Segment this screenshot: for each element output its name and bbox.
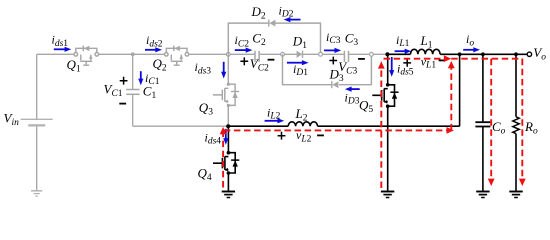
- svg-text:Q1: Q1: [67, 57, 81, 75]
- wire: top rail left segment (gray): [37, 53, 388, 55]
- current arrow i_L1 (blue): [395, 49, 412, 54]
- inductor L1: [411, 49, 441, 54]
- ground (Ro): [509, 192, 522, 198]
- node: junction rail/D2-loop right (gray ring): [319, 52, 323, 56]
- current arrow i_ds4 (blue): [223, 129, 228, 145]
- wire: input branch vertical (light gray): [36, 54, 38, 190]
- label VC1 with polarity: [120, 77, 128, 85]
- svg-text:Vo: Vo: [533, 45, 546, 63]
- svg-text:iD2: iD2: [279, 3, 294, 19]
- capacitor C3 (on rail): [344, 51, 348, 62]
- current path: red dashed down beside Co: [488, 59, 495, 186]
- svg-text:C2: C2: [252, 31, 266, 49]
- node: junction rail/D3-loop right (gray ring): [370, 52, 374, 56]
- node: junction rail/Q5 (black dot): [385, 52, 389, 56]
- current path: red dashed riser x=451 up to top red line: [448, 61, 455, 130]
- capacitor C1: [126, 54, 139, 126]
- svg-text:VC1: VC1: [104, 82, 123, 100]
- svg-text:ids5: ids5: [397, 62, 414, 78]
- svg-text:ids2: ids2: [146, 33, 163, 49]
- transistor Q5 (black, vertical): [372, 54, 398, 190]
- node Vo terminal: [527, 52, 531, 56]
- node: junction output rail / Ro (black dot): [514, 52, 518, 56]
- inductor L2: [288, 122, 317, 126]
- node: junction output rail / Co (black dot): [481, 52, 485, 56]
- transistor Q3 (gray, vertical): [213, 54, 239, 126]
- current arrow i_ds1 (blue): [54, 47, 72, 52]
- svg-text:Q3: Q3: [199, 100, 213, 118]
- diode D3 (gray, pointing left): [332, 81, 339, 88]
- node: junction C1/rail (gray dot): [131, 52, 135, 56]
- svg-text:Q5: Q5: [359, 97, 373, 115]
- node: junction output rail / L2 riser (black dot): [458, 52, 462, 56]
- capacitor Co: [475, 54, 490, 191]
- svg-text:ids3: ids3: [195, 60, 212, 76]
- wire: output rail (black): [387, 53, 527, 55]
- source Vin battery: [21, 119, 53, 125]
- current arrow i_C2 (blue): [235, 48, 253, 53]
- svg-text:L2: L2: [295, 106, 308, 124]
- ground (Q5): [381, 192, 394, 198]
- label VC2 with polarity: [240, 57, 248, 65]
- current arrow i_o (blue): [463, 47, 480, 52]
- node: junction rail/D3-loop (gray ring): [281, 52, 285, 56]
- svg-text:iL2: iL2: [267, 105, 281, 121]
- ground (input, light gray): [31, 191, 42, 196]
- node: junction lower rail (black dot): [226, 124, 230, 128]
- svg-text:D1: D1: [292, 34, 307, 52]
- current arrow i_ds5 (blue): [389, 57, 394, 77]
- node: junction rail/D2-loop/Q3 (gray ring): [226, 52, 230, 56]
- current arrow i_D3 (blue): [345, 87, 360, 92]
- ground (Co): [476, 192, 489, 198]
- current arrow i_D2 (blue): [284, 17, 301, 22]
- current path: red dashed down beside Ro: [519, 59, 526, 186]
- svg-text:iC2: iC2: [235, 33, 250, 49]
- svg-text:iD3: iD3: [345, 90, 360, 106]
- svg-text:C3: C3: [345, 31, 359, 49]
- current arrow i_D1 (blue): [287, 60, 309, 65]
- label vL2 with polarity: [278, 132, 286, 140]
- wire: lower rail gray segment (C1 bottom to node): [133, 125, 229, 127]
- current path: red dashed lower horizontal (under L2): [224, 127, 454, 134]
- current path: red dashed top horizontal (under output rail): [384, 55, 523, 62]
- current arrow i_C3 (blue): [324, 48, 341, 53]
- svg-text:Vin: Vin: [4, 111, 20, 129]
- svg-text:Q4: Q4: [198, 165, 212, 183]
- wire: lower rail black (node to L2 and L2 to output riser): [228, 54, 459, 126]
- svg-text:iC3: iC3: [326, 30, 341, 46]
- resistor Ro: [513, 54, 519, 191]
- svg-text:L1: L1: [420, 33, 433, 51]
- svg-text:Q2: Q2: [153, 56, 167, 74]
- capacitor C2 (on rail): [255, 51, 259, 62]
- diode D2 (gray, pointing left): [269, 20, 276, 27]
- current arrow i_C1 (blue): [138, 71, 143, 85]
- transistor Q4 (black, vertical): [213, 126, 239, 191]
- svg-text:io: io: [466, 32, 474, 48]
- wire: D2 upper loop (gray): [228, 23, 320, 54]
- ground (Q4): [222, 192, 235, 198]
- current path: red dashed up through Q4: [220, 127, 227, 188]
- current arrow i_ds2 (blue): [145, 47, 162, 52]
- diode D1 (gray, pointing right, on rail): [297, 51, 303, 58]
- svg-text:vL1: vL1: [421, 54, 437, 70]
- label vL1 with polarity: [403, 59, 411, 67]
- label VC3 with polarity: [329, 57, 337, 65]
- transistor Q2 (gray, horizontal on rail): [165, 46, 189, 66]
- svg-text:Co: Co: [492, 119, 506, 137]
- svg-text:iL1: iL1: [396, 33, 410, 49]
- svg-text:ids1: ids1: [52, 33, 69, 49]
- current arrow i_L2 (blue): [265, 118, 285, 123]
- current path: red dashed along Q5: [378, 61, 385, 188]
- wire: D3 lower loop (gray): [283, 54, 372, 84]
- svg-text:ids4: ids4: [205, 130, 222, 146]
- current arrow i_ds3 (blue): [221, 62, 226, 79]
- svg-text:Ro: Ro: [524, 119, 538, 137]
- svg-text:D2: D2: [251, 4, 266, 22]
- svg-text:iC1: iC1: [145, 71, 160, 87]
- transistor Q1 (gray, horizontal on rail): [74, 46, 99, 66]
- svg-text:iD1: iD1: [293, 62, 308, 78]
